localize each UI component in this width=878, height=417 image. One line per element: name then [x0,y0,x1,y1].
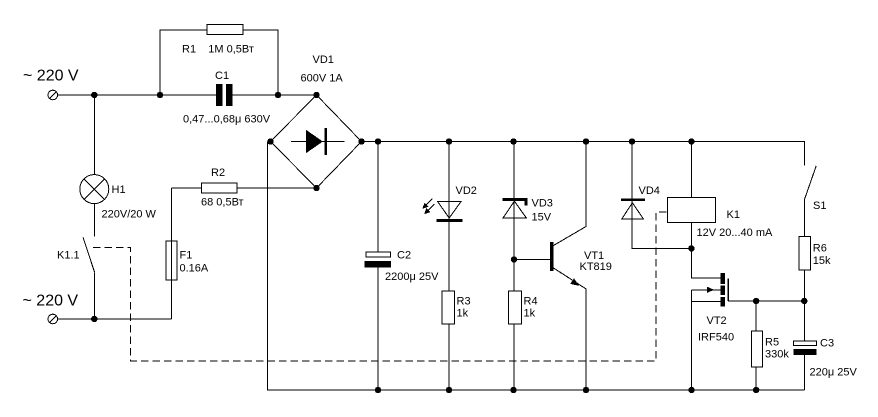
zener VD3 cathode bar with hook [502,198,527,205]
resistor R5 [752,331,763,367]
wire bottom AC line [58,318,172,320]
node bridge bottom vertex [313,185,319,191]
svg-text:KT819: KT819 [580,261,612,273]
switch S1 blade [805,166,817,199]
node bus bottom R3 [446,387,452,393]
wire positive bus [362,142,805,166]
wire dashed mechanical link K1.1 to K1 [93,212,667,361]
capacitor C2 negative plate [365,261,392,268]
bridge rectifier VD1 diamond [271,95,362,188]
transistor VT1 collector [554,142,587,246]
resistor R2 [202,183,238,193]
node bus bottom VT2 source [688,387,694,393]
wire S1 to R6 [803,199,805,390]
svg-text:C1: C1 [215,70,229,82]
svg-text:C3: C3 [820,338,834,350]
svg-text:~ 220 V: ~ 220 V [23,68,79,85]
terminal X2 (bottom ~220V input) [48,314,58,324]
wire base of VT1 [514,258,550,260]
svg-text:VT2: VT2 [707,315,727,327]
svg-text:R2: R2 [211,167,225,179]
svg-text:R3: R3 [457,296,471,308]
fuse F1 [166,241,177,280]
svg-text:0.16A: 0.16A [180,263,209,275]
capacitor C1 [216,84,233,106]
wire VT2 source to ground [691,290,693,390]
node bridge top vertex [313,92,319,98]
transistor VT1 base bar [550,242,554,271]
svg-text:VD2: VD2 [456,185,477,197]
node bus bottom R4 [510,387,516,393]
svg-text:VT1: VT1 [584,250,604,262]
transistor VT1 emitter arrow [570,278,579,286]
svg-text:R6: R6 [813,243,827,255]
svg-text:330k: 330k [765,349,789,361]
svg-text:15V: 15V [532,212,552,224]
svg-text:F1: F1 [180,250,193,262]
svg-text:12V 20...40 mA: 12V 20...40 mA [697,227,773,239]
svg-text:IRF540: IRF540 [698,332,734,344]
node VD4/K1 junction [688,245,694,251]
wire K1 column [691,142,720,279]
lamp H1 [80,95,109,237]
node junction bottom AC / K1.1 [91,316,97,322]
transistor VT1 emitter [554,268,587,390]
svg-text:R5: R5 [765,337,779,349]
node junction top wire / R1 left [157,92,163,98]
wire R1 loop [160,30,278,95]
svg-text:VD4: VD4 [639,185,660,197]
svg-text:VD3: VD3 [532,198,553,210]
node bus/VD2 [446,138,452,144]
LED VD2 triangle [438,202,461,219]
capacitor C2 positive plate [366,252,390,257]
svg-text:68 0,5Вт: 68 0,5Вт [201,197,244,209]
node bus/VT1 collector [583,138,589,144]
resistor R6 [799,237,811,271]
wire C2 column [377,142,379,391]
bridge inner diode cathode bar [324,128,327,155]
wire top AC line left of C1 [58,94,216,96]
svg-text:220V/20 W: 220V/20 W [102,209,157,221]
bridge inner diode wire [291,141,345,143]
wire top AC line right of C1 [233,94,317,96]
node bus/K1 [688,138,694,144]
svg-text:S1: S1 [813,200,826,212]
wire VD3/R4 column [513,142,515,391]
switch contact K1.1 [83,237,95,319]
node junction top wire / lamp branch [91,92,97,98]
diode VD4 triangle [622,203,644,219]
svg-text:~ 220 V: ~ 220 V [23,293,79,310]
terminal X1 (top ~220V input) [48,90,58,100]
node bus bottom R5 [753,387,759,393]
node bridge right vertex [358,138,364,144]
svg-text:1k: 1k [524,308,536,320]
wire negative rail (left vertical + bottom bus) [268,142,805,391]
node bus bottom C2 [375,387,381,393]
svg-text:C2: C2 [397,250,411,262]
wire R5 column [755,301,757,390]
LED VD2 emission arrow 2 [424,204,434,214]
svg-text:600V 1A: 600V 1A [301,73,344,85]
node bus/C2 [375,138,381,144]
node gate/R5 [753,298,759,304]
LED VD2 cathode bar [437,219,463,222]
svg-text:H1: H1 [112,184,126,196]
MOSFET VT2 channel segments [721,273,725,307]
diode VD4 cathode bar [621,199,645,202]
svg-text:220μ 25V: 220μ 25V [810,367,858,379]
resistor R3 [442,291,455,324]
MOSFET VT2 source line [692,300,721,302]
wire gate lead [728,300,804,302]
MOSFET VT2 body line with arrow [692,287,721,293]
svg-text:K1: K1 [727,209,740,221]
node bus bottom VT1 emitter [583,387,589,393]
node bus/VD3 [510,138,516,144]
svg-text:VD1: VD1 [313,54,334,66]
svg-text:2200μ 25V: 2200μ 25V [385,271,439,283]
resistor R1 [207,25,243,35]
capacitor C3 positive plate [793,341,816,346]
svg-text:K1.1: K1.1 [57,250,80,262]
node bridge left vertex [267,138,273,144]
wire R2 row [172,187,317,189]
bridge inner diode triangle [306,130,323,153]
svg-text:15k: 15k [813,255,831,267]
wire F1 column [171,188,173,319]
svg-text:R1 1M 0,5Вт: R1 1M 0,5Вт [182,44,254,56]
node VD3/R4/base junction [511,256,517,262]
MOSFET VT2 gate bar [727,278,729,301]
node gate/R6/C3 [801,298,807,304]
LED VD2 emission arrow 1 [422,199,432,209]
node junction top wire / R1 right [275,92,281,98]
svg-text:1k: 1k [457,308,469,320]
wire VD2/R3 column [448,142,450,391]
relay coil K1 [667,198,715,223]
wire VD4 column [632,142,691,249]
zener VD3 triangle [503,201,526,218]
svg-text:0,47...0,68μ 630V: 0,47...0,68μ 630V [183,113,271,125]
node bus/VD4 [629,138,635,144]
svg-text:R4: R4 [524,296,538,308]
capacitor C3 negative plate [793,349,816,355]
resistor R4 [509,291,522,324]
